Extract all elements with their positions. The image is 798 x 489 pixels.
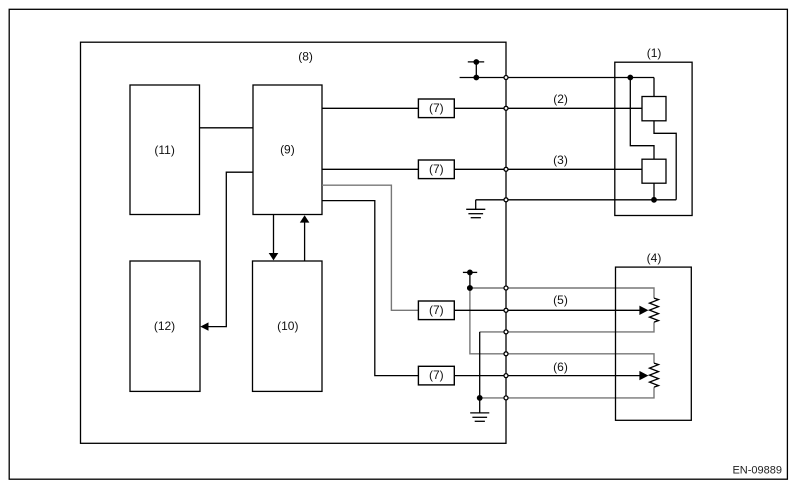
svg-text:(12): (12) [154, 319, 175, 333]
wire power to element 1 top [653, 78, 655, 97]
wire power branch to element 2 [630, 78, 654, 160]
row A gray wire VCC sensor 1 [470, 288, 654, 298]
wire (9) to (12) with arrow [208, 172, 254, 326]
svg-text:(7): (7) [429, 101, 444, 115]
power wire row (upper) [460, 77, 654, 79]
ground symbol (upper) [475, 200, 477, 210]
junction dot on power row in box 1 [627, 75, 633, 81]
potentiometer resistor 2 [650, 363, 659, 387]
connector (7) on wire 3 [418, 160, 454, 179]
wire (10) up to (9) with arrow [304, 222, 306, 261]
svg-text:(7): (7) [429, 303, 444, 317]
svg-text:(4): (4) [647, 251, 662, 265]
row D gray wire VCC sensor 2 [505, 354, 654, 363]
gray wire (9) to connector of wire 5 [322, 185, 418, 310]
ECM box (8) [81, 42, 507, 443]
ground wire row (upper) [476, 199, 677, 201]
wire (9) down to (10) with arrow [273, 215, 275, 253]
potentiometer resistor 1 [650, 298, 659, 322]
svg-text:(5): (5) [553, 293, 568, 307]
wire (3) [322, 168, 418, 170]
box (4) sensor assembly [616, 267, 692, 420]
box (12) [130, 261, 200, 391]
svg-text:(8): (8) [298, 49, 313, 63]
box (9) microcomputer [253, 85, 322, 215]
connector node circles on ECM edge [504, 76, 508, 400]
wire square2 bottom to ground row [653, 183, 655, 200]
junction dot on ground row in box 1 [651, 197, 657, 203]
wire (2) [322, 107, 418, 109]
svg-text:(7): (7) [429, 162, 444, 176]
wire (11)-(9) [200, 127, 254, 129]
connector (7) on wire 6 [418, 366, 454, 385]
battery feed symbol (upper) [468, 61, 484, 63]
box (11) [130, 85, 200, 215]
svg-text:(6): (6) [553, 360, 568, 374]
connector (7) on wire 2 [418, 99, 454, 118]
svg-text:(9): (9) [280, 142, 295, 156]
battery feed symbol (lower) [463, 271, 477, 273]
black ground vertical lower [479, 332, 481, 413]
svg-text:(2): (2) [553, 92, 568, 106]
wire (6) signal [454, 375, 641, 377]
svg-text:EN-09889: EN-09889 [732, 464, 782, 476]
svg-text:(11): (11) [154, 143, 174, 157]
connector (7) on wire 5 [418, 301, 454, 320]
svg-text:(10): (10) [277, 319, 298, 333]
junction dot battery to row A [467, 285, 473, 291]
relay element square 1 [642, 97, 666, 121]
svg-text:(3): (3) [553, 153, 568, 167]
relay element square 2 [642, 159, 666, 183]
wire square1 bottom return path [654, 121, 676, 200]
wire (5) signal [454, 309, 641, 311]
ground symbol (lower) [470, 412, 489, 414]
gray power vertical to row D [470, 288, 505, 354]
svg-text:(7): (7) [429, 368, 444, 382]
row C gray wire return sensor 1 [480, 322, 654, 332]
row F gray wire return sensor 2 [480, 387, 654, 398]
junction dot row F to ground [477, 395, 483, 401]
box (10) [253, 261, 323, 391]
svg-text:(1): (1) [647, 46, 662, 60]
box (1) sensor [615, 62, 692, 215]
black wire (9) to connector of wire 6 [322, 201, 418, 376]
